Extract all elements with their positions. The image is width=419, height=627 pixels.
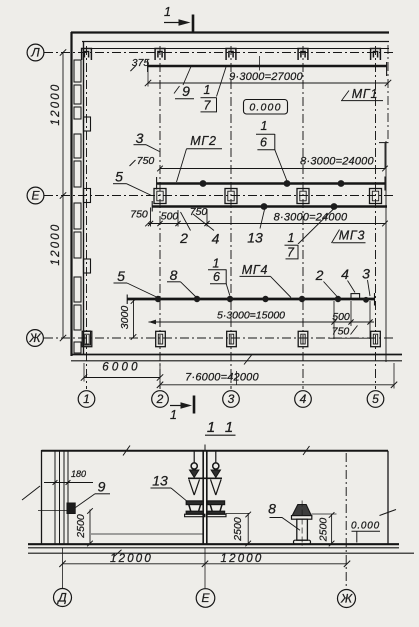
svg-text:МГ4: МГ4 [242, 263, 269, 277]
leader label 2 above MG4 right [315, 267, 338, 297]
svg-text:1: 1 [288, 231, 295, 245]
bottom wall of plan (double line with break) [71, 355, 402, 365]
left wall (outer and inner lines with panel joints) [72, 32, 84, 356]
svg-text:13: 13 [152, 473, 168, 489]
svg-text:Д: Д [56, 591, 67, 605]
right dimension 2500 (pedestal height) [312, 512, 337, 546]
svg-text:5: 5 [117, 268, 125, 284]
svg-text:500: 500 [161, 211, 179, 223]
leader label 4 above MG4 right [341, 266, 355, 293]
svg-text:750: 750 [332, 326, 350, 338]
svg-text:1: 1 [207, 419, 215, 436]
leader label 3 above MG4 right [362, 266, 370, 297]
svg-text:9·3000=27000: 9·3000=27000 [229, 71, 303, 83]
axis bubble D in section [54, 589, 72, 607]
svg-text:8·3000=24000: 8·3000=24000 [300, 156, 374, 168]
leader label 3 above MG2 [134, 130, 160, 152]
center dimension 2500 (trolley height) [226, 512, 252, 547]
left vertical dimension line with 12000 texts [50, 49, 66, 341]
section dimension line 12000 + 12000 [59, 553, 350, 567]
label MG1 with underline [341, 87, 383, 101]
svg-text:4: 4 [212, 231, 220, 247]
svg-text:6: 6 [213, 270, 220, 284]
elevation box 0.000 on plan [244, 100, 288, 115]
axis bubble L [27, 44, 44, 61]
svg-text:2500: 2500 [318, 518, 330, 543]
svg-text:МГ3: МГ3 [339, 229, 366, 243]
svg-text:4: 4 [300, 392, 307, 406]
svg-text:8: 8 [268, 501, 276, 517]
svg-text:1: 1 [164, 5, 171, 19]
top wall along axis L (double line) [71, 33, 389, 49]
axis bubble E in section [196, 589, 215, 608]
svg-text:13: 13 [247, 230, 263, 246]
svg-text:МГ2: МГ2 [190, 134, 217, 148]
left dimension 2500 (wall bracket height) [38, 508, 93, 546]
monorail beam MG4 with hanger dots [127, 293, 375, 306]
elevation mark 0.000 in section [351, 521, 380, 543]
section cut mark 1 at top (arrow and bar) [164, 5, 193, 32]
svg-text:2500: 2500 [232, 517, 244, 542]
svg-text:5: 5 [115, 169, 123, 185]
svg-text:2: 2 [315, 267, 324, 283]
section left wall (outer line and panel lines) [22, 450, 68, 544]
svg-text:Ж: Ж [340, 592, 353, 606]
svg-text:4: 4 [341, 266, 349, 282]
section top line (roof) with break marks [42, 446, 389, 456]
svg-text:1: 1 [204, 83, 211, 97]
right edge boundary line of plan [385, 141, 387, 362]
position flag 1/6 above MG4 [208, 257, 230, 296]
axis extensions below floor at D and E [63, 548, 206, 588]
axis Zh vertical in section (dash-dot) [345, 453, 347, 589]
wall pilaster stubs on inner face [84, 117, 91, 345]
column bubbles 1-5 at plan bottom [78, 391, 384, 408]
axis grid verticals 1-5 (dash-dot) [87, 46, 376, 389]
svg-text:750: 750 [137, 155, 155, 167]
svg-text:1: 1 [213, 257, 220, 271]
leader label 9 (pos.9) under MG1 [174, 67, 194, 100]
dimensions 750 500 750 under axis E [130, 206, 209, 227]
monorail beam MG2 with hanger dots [157, 177, 385, 191]
svg-text:Л: Л [30, 45, 40, 59]
stop bracket (pos.4) on MG4 beam [351, 294, 360, 299]
monorail beam MG3 with hanger dots [152, 201, 387, 212]
svg-text:3: 3 [362, 266, 370, 282]
column at axis E in section (double line) [203, 451, 207, 544]
monorail beam MG1 (thick line with end ticks) [148, 56, 387, 76]
svg-text:3: 3 [136, 130, 144, 146]
label MG3 with underline [332, 229, 366, 244]
svg-text:9: 9 [98, 479, 106, 495]
dimension line 9x3000=27000 under MG1 [145, 45, 391, 140]
svg-text:2: 2 [156, 392, 164, 406]
dimension 750 left above axis E [130, 155, 155, 167]
section floor lines with break [28, 544, 414, 556]
vertical dimension 3000 from MG4 to axis Zh [119, 298, 136, 340]
horizontal axis line L (dash-dot) [44, 52, 396, 54]
columns (P-shapes) under top wall at axes 1-5 [82, 49, 381, 61]
section cut mark 1 at bottom (arrow and bar) [170, 396, 194, 423]
leader label 5 left of axis E [113, 169, 152, 196]
leader label 8 in section [268, 501, 300, 531]
svg-text:3: 3 [228, 392, 235, 406]
bracket pos.9 on wall [67, 503, 75, 514]
pedestal pos.8 (hatched cap, post, base) [292, 501, 312, 547]
svg-text:1: 1 [261, 119, 268, 133]
bottom dimension 6000 (axis 1 to 2) [81, 362, 163, 382]
intermediate floor line in section [91, 533, 203, 535]
svg-text:5: 5 [372, 392, 379, 406]
dimension line 8x3000=24000 upper with corner flag [157, 143, 388, 172]
svg-text:1: 1 [225, 419, 233, 436]
svg-text:6: 6 [260, 136, 267, 150]
svg-text:Е: Е [31, 188, 40, 202]
leader label 2 under MG3 dims [179, 212, 190, 246]
leader label 13 in section [151, 473, 187, 501]
horizontal axis line E (dash-dot) [44, 195, 396, 197]
dimension line 5x3000=15000 under MG4 [149, 310, 375, 325]
leader label 9 in section [76, 479, 111, 508]
bottom dimension 7x6000=42000 [157, 363, 397, 389]
svg-text:12000: 12000 [50, 223, 62, 266]
svg-text:7: 7 [204, 99, 212, 113]
svg-text:750: 750 [190, 206, 208, 218]
section title 1-1 with underline [205, 419, 236, 436]
axis bubble Zh in section [338, 590, 356, 608]
svg-text:500: 500 [332, 311, 350, 323]
svg-text:Е: Е [201, 591, 210, 605]
horizontal axis line Zh (dash-dot) [44, 337, 396, 339]
columns (double squares) on axis E at axes 2-5 [154, 189, 382, 204]
leader label 4 under MG3 dims [193, 214, 220, 247]
hoist assemblies pos.13 on column (hooks, braces, trolleys) [185, 445, 226, 517]
svg-text:0.000: 0.000 [351, 521, 380, 532]
svg-text:1: 1 [83, 392, 90, 406]
dimension 180 over wall thickness [44, 469, 93, 485]
dimension line 8x3000=24000 lower [145, 212, 388, 227]
svg-text:9: 9 [182, 83, 190, 99]
svg-text:750: 750 [130, 209, 148, 221]
position flag 1/7 under MG1 [201, 67, 227, 113]
leader label 8 above MG4 [167, 267, 196, 297]
position flag 1/6 above MG2 [256, 119, 287, 181]
axis bubble E [27, 187, 44, 204]
leader label 13 pointing to MG3 hanger dot [247, 210, 264, 246]
svg-text:1: 1 [170, 408, 177, 422]
svg-text:6000: 6000 [102, 362, 140, 374]
svg-text:2500: 2500 [75, 514, 87, 539]
svg-text:3000: 3000 [119, 306, 131, 330]
columns (double squares) on axis Zh at axes 1-5 [82, 331, 380, 346]
axis bubble Zh [27, 330, 44, 347]
svg-text:7·6000=42000: 7·6000=42000 [185, 372, 259, 384]
label MG2 with underline and leader [177, 134, 223, 182]
svg-text:7: 7 [287, 246, 295, 260]
svg-text:12000: 12000 [110, 553, 153, 565]
label MG4 with underline and leader [240, 263, 292, 298]
svg-text:Ж: Ж [28, 331, 41, 345]
svg-text:8·3000=24000: 8·3000=24000 [274, 212, 348, 224]
svg-text:8: 8 [170, 267, 178, 283]
svg-text:5·3000=15000: 5·3000=15000 [217, 310, 285, 322]
dimensions 500 and 750 at MG4 right end [329, 301, 374, 339]
dimension 375 near MG1 left end [130, 57, 149, 71]
position flag 1/7 pointing to MG3 [285, 209, 334, 260]
svg-text:12000: 12000 [50, 83, 62, 126]
svg-text:МГ1: МГ1 [352, 87, 379, 101]
leader label 5 above MG4 [114, 268, 157, 297]
section right wall line with break [380, 451, 397, 544]
svg-text:0.000: 0.000 [249, 102, 281, 114]
svg-text:2: 2 [179, 230, 188, 246]
svg-text:180: 180 [71, 469, 86, 479]
svg-text:12000: 12000 [221, 553, 264, 565]
